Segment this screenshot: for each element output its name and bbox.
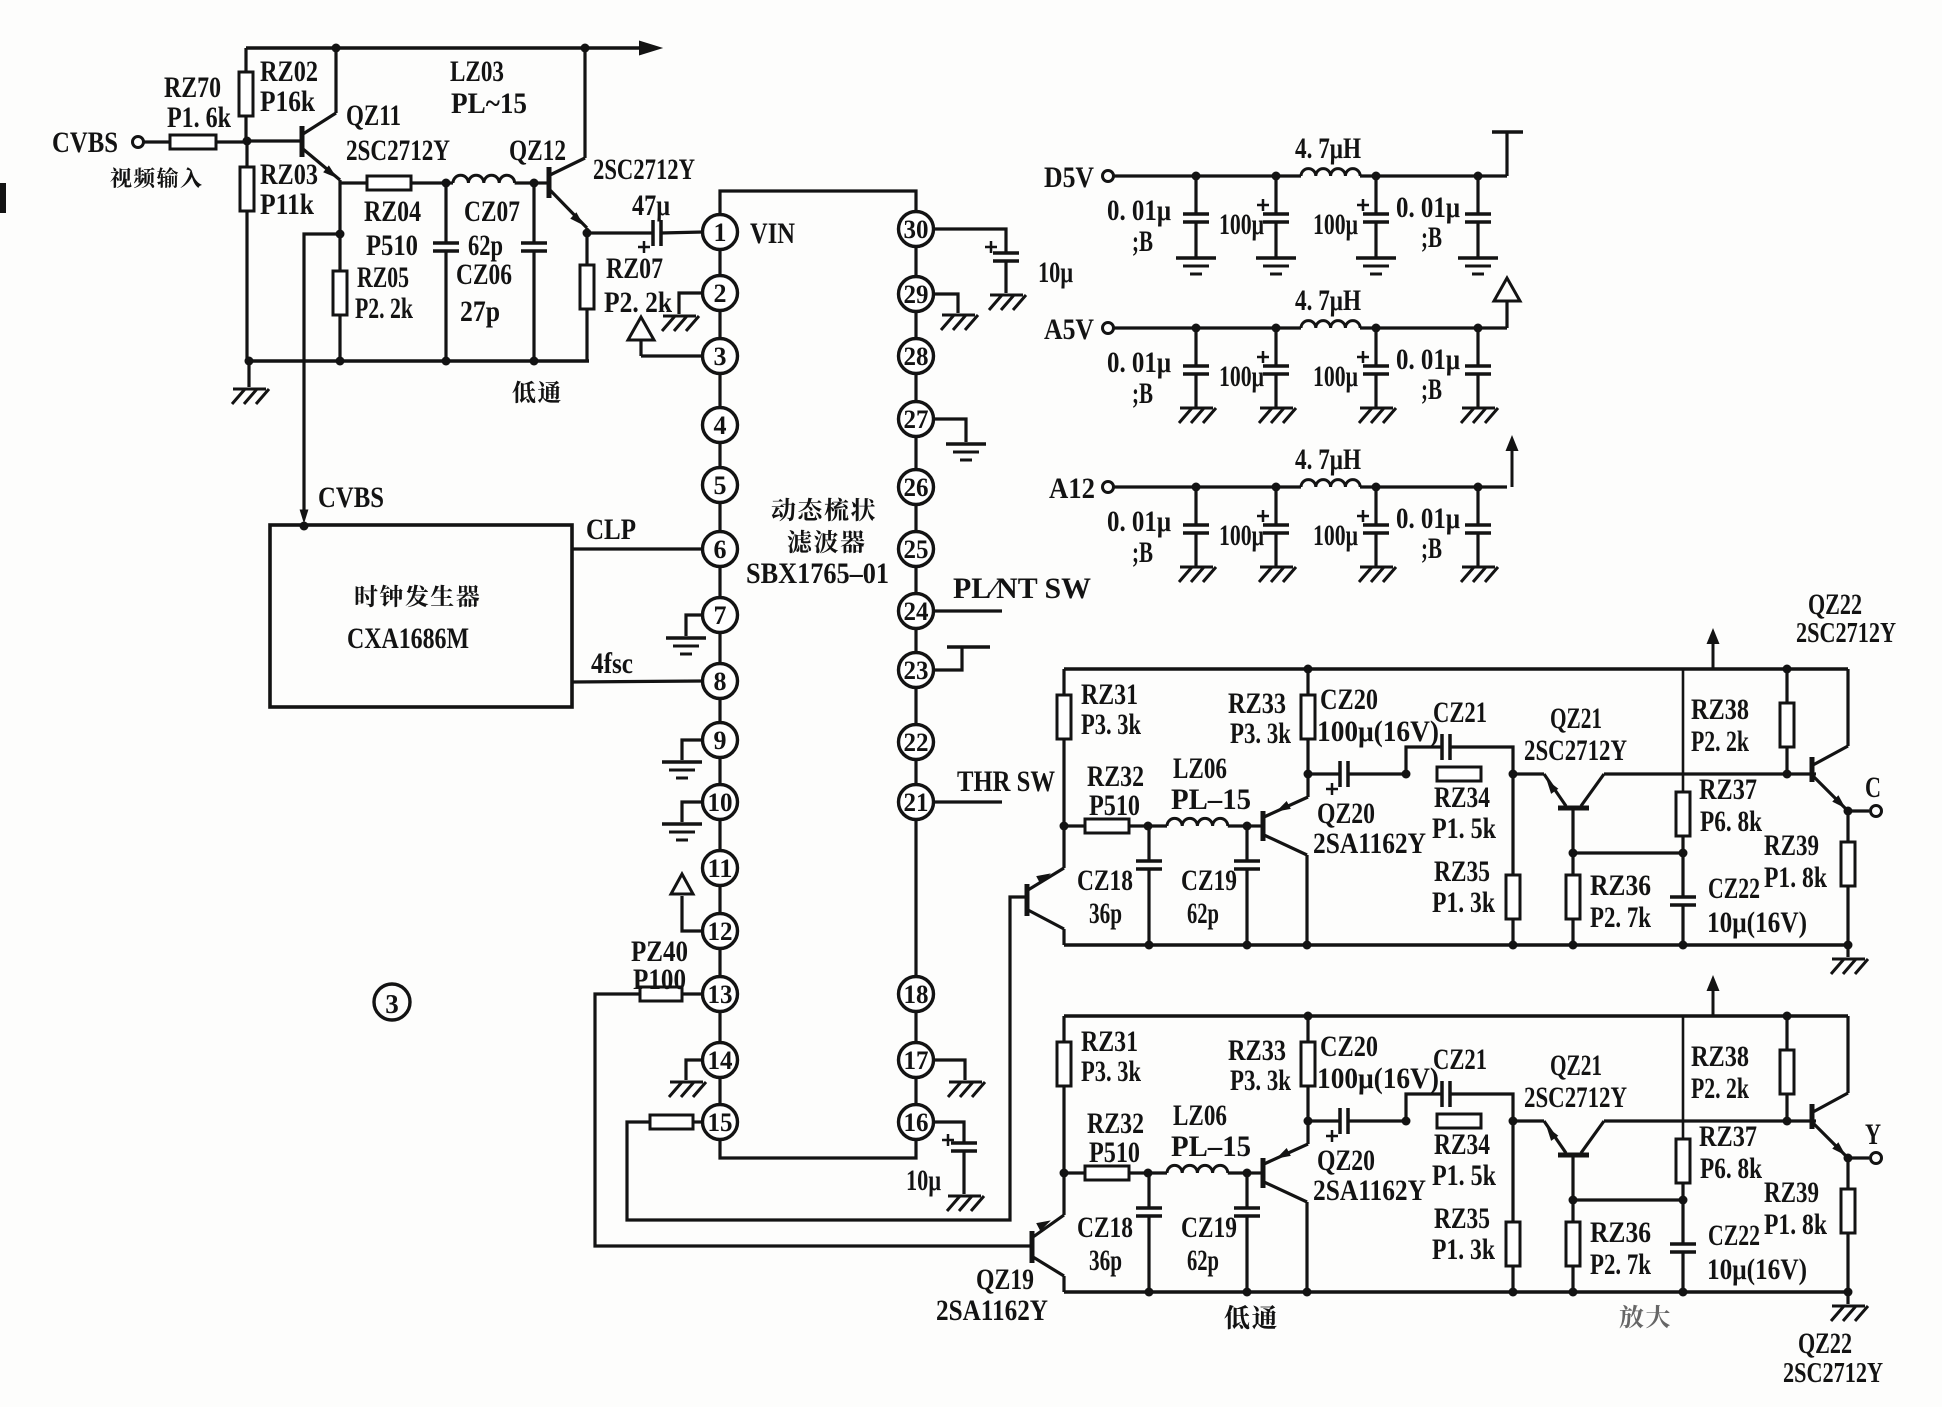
label 低通 low pass [512, 381, 560, 404]
svg-text:P1. 8k: P1. 8k [1764, 1208, 1827, 1241]
svg-text:P6. 8k: P6. 8k [1700, 805, 1762, 838]
resistor RZ31 Y [1062, 1016, 1065, 1042]
resistor RZ36 P2.7k C [1571, 853, 1574, 875]
pin 6 [703, 532, 738, 567]
svg-text:RZ70: RZ70 [164, 71, 221, 104]
svg-text:P100: P100 [633, 963, 686, 996]
ground at RZ39 Y [1846, 1292, 1849, 1304]
ground A12 row cap 1 [1180, 566, 1213, 569]
svg-text:5: 5 [714, 471, 727, 500]
resistor RZ39 P1.8k C [1846, 811, 1849, 842]
svg-text:0. 01μ: 0. 01μ [1396, 191, 1460, 224]
switch stub pin23 [933, 648, 962, 670]
wire QZ11 emitter down [338, 180, 341, 271]
capacitor CZ22 10u 16V C [1681, 853, 1684, 897]
svg-text:P2. 2k: P2. 2k [1691, 725, 1749, 758]
capacitor CZ21 Y [1406, 1094, 1442, 1121]
svg-text:10μ: 10μ [906, 1164, 941, 1197]
wire pin21 THR SW [933, 800, 1002, 803]
pin 8 [703, 664, 738, 699]
ground pin16 cap [948, 1195, 981, 1198]
ground D5V row cap 2 [1256, 256, 1296, 260]
capacitor 100u A5V row [1272, 324, 1281, 333]
wire top rail C block [1064, 667, 1848, 671]
transistor QZ12 2SC2712Y [534, 181, 549, 184]
ground pin7 [686, 615, 703, 636]
pin 13 [703, 977, 738, 1012]
svg-text:24: 24 [904, 597, 929, 626]
svg-text:RZ31: RZ31 [1081, 1025, 1138, 1058]
capacitor 47u coupling [587, 231, 653, 234]
svg-text:10μ(16V): 10μ(16V) [1707, 906, 1807, 939]
svg-text:QZ12: QZ12 [509, 134, 566, 167]
arrowhead on top rail [639, 41, 663, 56]
svg-text:A12: A12 [1049, 472, 1095, 505]
resistor RZ33 C [1304, 665, 1313, 674]
svg-text:CZ20: CZ20 [1320, 683, 1378, 716]
svg-text:4: 4 [714, 411, 727, 440]
node base of QZ11 [243, 137, 252, 146]
svg-text:2SA1162Y: 2SA1162Y [1313, 1174, 1426, 1207]
svg-text:RZ34: RZ34 [1434, 781, 1490, 814]
svg-text:;B: ;B [1421, 373, 1442, 406]
wire pin1 to pin30 top link [720, 191, 916, 214]
svg-text:13: 13 [708, 980, 733, 1009]
resistor RZ70 [144, 140, 170, 143]
svg-text:100μ(16V): 100μ(16V) [1317, 1062, 1439, 1095]
svg-text:2SC2712Y: 2SC2712Y [593, 153, 695, 186]
resistor RZ36 P2.7k Y [1571, 1200, 1574, 1222]
svg-text:A5V: A5V [1044, 313, 1094, 346]
svg-text:RZ35: RZ35 [1434, 1202, 1490, 1235]
pin 10 [703, 785, 738, 820]
svg-text:RZ05: RZ05 [357, 261, 409, 294]
svg-text:P1. 5k: P1. 5k [1432, 1159, 1496, 1192]
capacitor 0.01u D5V row [1474, 172, 1483, 181]
node RZ33 CZ20 QZ20 Y [1304, 1117, 1313, 1126]
wire right pin column [914, 246, 917, 277]
ground A5V row cap 3 [1360, 407, 1393, 410]
svg-text:29: 29 [904, 280, 929, 309]
capacitor CZ19 62p C [1245, 826, 1248, 861]
node RZ38 QZ22 base Y [1783, 1117, 1792, 1126]
resistor RZ38 P2.2k Y [1783, 1012, 1792, 1021]
ground A12 row cap 3 [1360, 566, 1393, 569]
svg-text:THR SW: THR SW [957, 765, 1055, 798]
svg-text:CXA1686M: CXA1686M [347, 622, 469, 655]
wire left pin column [718, 249, 721, 276]
svg-text:RZ34: RZ34 [1434, 1128, 1490, 1161]
capacitor CZ19 62p Y [1245, 1173, 1248, 1208]
power rail symbol arrow [1511, 443, 1514, 487]
svg-text:RZ07: RZ07 [606, 252, 663, 285]
svg-text:;B: ;B [1132, 536, 1153, 569]
svg-text:P2. 2k: P2. 2k [1691, 1072, 1749, 1105]
svg-text:22: 22 [904, 728, 929, 757]
svg-text:2: 2 [714, 279, 727, 308]
svg-text:RZ37: RZ37 [1699, 773, 1757, 806]
svg-text:11: 11 [708, 854, 733, 883]
wire bottom rail Y block [1064, 1290, 1848, 1294]
IC label 动态梳状滤波器 SBX1765-01 [772, 498, 875, 522]
svg-text:36p: 36p [1089, 897, 1122, 930]
ground D5V row cap 3 [1356, 256, 1396, 260]
pin 30 [899, 212, 934, 247]
svg-text:6: 6 [714, 535, 727, 564]
pin 22 [899, 725, 934, 760]
svg-text:30: 30 [904, 215, 929, 244]
inductor LZ03 PL~15 [446, 181, 453, 184]
wire QZ21 base down Y [1571, 1155, 1574, 1200]
svg-text:CZ06: CZ06 [456, 258, 512, 291]
svg-text:RZ38: RZ38 [1691, 1040, 1749, 1073]
svg-text:2SC2712Y: 2SC2712Y [1524, 1081, 1627, 1114]
svg-text:P1. 5k: P1. 5k [1432, 812, 1496, 845]
svg-text:QZ20: QZ20 [1317, 797, 1375, 830]
svg-text:4. 7μH: 4. 7μH [1295, 132, 1361, 165]
capacitor 0.01u D5V row [1192, 172, 1201, 181]
svg-text:100μ: 100μ [1219, 208, 1264, 241]
svg-text:2SC2712Y: 2SC2712Y [1524, 734, 1627, 767]
resistor RZ35 P1.3k C [1511, 774, 1514, 875]
svg-text:P2. 7k: P2. 7k [1590, 901, 1651, 934]
svg-text:QZ19: QZ19 [976, 1263, 1034, 1296]
ground pin27 [933, 419, 966, 442]
svg-text:D5V: D5V [1044, 161, 1094, 194]
power triangle at pin12 [682, 896, 703, 931]
svg-text:26: 26 [904, 473, 929, 502]
capacitor 10u at pin16 [951, 1141, 977, 1145]
label 放大 amplify [1620, 1305, 1670, 1329]
svg-text:QZ11: QZ11 [346, 99, 401, 132]
ground pin10 [682, 802, 703, 822]
capacitor 0.01u A12 row [1474, 483, 1483, 492]
node RZ32 CZ18 Y [1144, 1169, 1153, 1178]
node C output [1844, 807, 1853, 816]
node LZ03 CZ07 [530, 179, 539, 188]
ground at RZ39 C [1846, 945, 1849, 957]
svg-text:P510: P510 [1089, 1136, 1140, 1169]
ground pin30 cap [990, 294, 1023, 297]
capacitor 0.01u A5V row [1192, 324, 1201, 333]
svg-text:18: 18 [904, 980, 929, 1009]
svg-text:VIN: VIN [750, 217, 795, 250]
figure number 3 [374, 984, 410, 1020]
svg-text:10μ(16V): 10μ(16V) [1707, 1253, 1807, 1286]
pin 26 [899, 470, 934, 505]
svg-text:0. 01μ: 0. 01μ [1107, 194, 1171, 227]
ground A5V row cap 2 [1260, 407, 1293, 410]
capacitor CZ06 27p [444, 183, 447, 243]
transistor QZ21 2SC2712Y C [1513, 772, 1544, 775]
block clock generator CXA1686M [270, 525, 572, 707]
node RZ37 CZ22 Y [1679, 1196, 1688, 1205]
ground D5V row cap 1 [1176, 256, 1216, 260]
transistor QZ20 2SA1162Y Y [1247, 1171, 1263, 1174]
svg-text:P510: P510 [366, 229, 418, 262]
svg-text:P2. 2k: P2. 2k [604, 286, 672, 319]
svg-text:23: 23 [904, 656, 929, 685]
capacitor 100u D5V row [1372, 172, 1381, 181]
pin 1 [703, 215, 738, 250]
svg-text:27p: 27p [460, 295, 500, 328]
svg-text:10μ: 10μ [1038, 256, 1073, 289]
terminal Y output [1848, 1156, 1869, 1159]
svg-text:0. 01μ: 0. 01μ [1107, 346, 1171, 379]
resistor RZ07 [585, 233, 588, 265]
svg-text:CVBS: CVBS [52, 126, 118, 159]
svg-text:;B: ;B [1421, 532, 1442, 565]
node RZ38 QZ22 base C [1783, 770, 1792, 779]
svg-text:25: 25 [904, 535, 929, 564]
pin 24 [899, 594, 934, 629]
ground pin14 [686, 1060, 703, 1080]
ground pin17 [933, 1060, 965, 1080]
svg-text:P6. 8k: P6. 8k [1700, 1152, 1762, 1185]
wire pin13 via PZ40 to QZ19 base Y block [595, 994, 1030, 1246]
svg-text:RZ31: RZ31 [1081, 678, 1138, 711]
power triangle at pin3 [641, 354, 703, 357]
wire pin30 to 10u cap [933, 229, 1006, 253]
svg-text:100μ: 100μ [1313, 360, 1358, 393]
ground A5V row cap 1 [1180, 407, 1213, 410]
svg-text:;B: ;B [1132, 377, 1153, 410]
svg-text:PL⁄NT SW: PL⁄NT SW [953, 572, 1091, 605]
scan edge artifact [0, 183, 6, 213]
svg-text:100μ: 100μ [1219, 519, 1264, 552]
wire IC bottom link pin15-pin16 [720, 1139, 916, 1158]
transistor QZ20 2SA1162Y C [1247, 824, 1263, 827]
capacitor 100u A12 row [1372, 483, 1381, 492]
capacitor CZ20 100u 16V C [1308, 772, 1340, 775]
pin 16 [899, 1105, 934, 1140]
svg-text:CZ21: CZ21 [1433, 1043, 1487, 1076]
ground A5V row cap 4 [1462, 407, 1495, 410]
power input D5V [1103, 171, 1114, 182]
svg-text:100μ: 100μ [1313, 519, 1358, 552]
pin 17 [899, 1043, 934, 1078]
svg-text:8: 8 [714, 667, 727, 696]
svg-text:3: 3 [714, 342, 727, 371]
svg-text:17: 17 [904, 1046, 929, 1075]
resistor RZ32 P510 C [1064, 824, 1085, 827]
transistor QZ22 2SC2712Y Y [1810, 1104, 1815, 1129]
ground A12 row cap 4 [1462, 566, 1495, 569]
svg-text:CVBS: CVBS [318, 481, 384, 514]
transistor QZ19 2SA1162Y C [1025, 884, 1030, 916]
svg-text:SBX1765–01: SBX1765–01 [746, 557, 889, 590]
capacitor CZ21 C [1406, 747, 1442, 774]
svg-text:RZ04: RZ04 [364, 195, 421, 228]
svg-text:PL–15: PL–15 [1171, 783, 1251, 816]
svg-text:CZ18: CZ18 [1077, 864, 1133, 897]
capacitor 0.01u A12 row [1192, 483, 1201, 492]
pin 3 [703, 339, 738, 374]
resistor RZ39 P1.8k Y [1846, 1158, 1849, 1189]
pin 14 [703, 1043, 738, 1078]
resistor RZ34 P1.5k Y [1437, 1114, 1481, 1128]
label 低通 low pass Y block [1224, 1305, 1277, 1329]
svg-text:P1. 6k: P1. 6k [167, 101, 231, 134]
resistor RZ31 C [1062, 669, 1065, 695]
svg-text:28: 28 [904, 342, 929, 371]
capacitor 100u A12 row [1272, 483, 1281, 492]
svg-text:62p: 62p [468, 229, 503, 262]
svg-text:C: C [1865, 771, 1881, 804]
capacitor 0.01u A5V row [1474, 324, 1483, 333]
node RZ31 RZ32 Y [1060, 1169, 1069, 1178]
svg-text:P510: P510 [1089, 789, 1140, 822]
node CZ20 CZ21 RZ34 C [1402, 770, 1411, 779]
wire top rail [246, 46, 640, 50]
resistor PZ40 P100 [682, 992, 703, 995]
pin 15 [703, 1105, 738, 1140]
svg-text:RZ37: RZ37 [1699, 1120, 1757, 1153]
svg-text:QZ20: QZ20 [1317, 1144, 1375, 1177]
wire QZ21 base down C [1571, 808, 1574, 853]
svg-text:3: 3 [385, 989, 399, 1019]
wire pin15 to QZ19 base C block [627, 897, 1025, 1220]
pin 2 [703, 276, 738, 311]
svg-text:CZ22: CZ22 [1708, 1219, 1760, 1252]
svg-text:CZ22: CZ22 [1708, 872, 1760, 905]
svg-text:;B: ;B [1421, 221, 1442, 254]
terminal C output [1848, 809, 1869, 812]
pin 7 [703, 598, 738, 633]
svg-text:QZ21: QZ21 [1550, 702, 1602, 735]
svg-text:QZ22: QZ22 [1798, 1327, 1852, 1360]
pin 5 [703, 468, 738, 503]
node emitter RZ05 CVBS tap [336, 230, 345, 239]
svg-text:CZ19: CZ19 [1181, 864, 1237, 897]
svg-text:100μ: 100μ [1219, 360, 1264, 393]
resistor at pin15 [693, 1120, 703, 1123]
svg-text:2SC2712Y: 2SC2712Y [346, 134, 450, 167]
svg-text:CZ07: CZ07 [464, 195, 520, 228]
capacitor 10u at pin30 [993, 251, 1019, 255]
pin 4 [703, 408, 738, 443]
svg-text:2SA1162Y: 2SA1162Y [936, 1294, 1048, 1327]
svg-text:21: 21 [904, 788, 929, 817]
resistor RZ03 [245, 141, 248, 167]
pin 25 [899, 532, 934, 567]
pin 9 [703, 723, 738, 758]
node LZ06 CZ19 Y [1243, 1169, 1252, 1178]
transistor QZ19 2SA1162Y Y [1030, 1231, 1035, 1263]
ground of input stage [247, 361, 250, 387]
capacitor CZ07 62p [532, 183, 535, 243]
svg-text:QZ22: QZ22 [1808, 588, 1862, 621]
capacitor 100u D5V row [1272, 172, 1281, 181]
wire pin2 ground [679, 293, 703, 314]
svg-text:2SC2712Y: 2SC2712Y [1796, 618, 1896, 649]
svg-text:P3. 3k: P3. 3k [1230, 717, 1291, 750]
svg-text:9: 9 [714, 726, 727, 755]
capacitor CZ22 10u 16V Y [1681, 1200, 1684, 1244]
svg-text:CZ20: CZ20 [1320, 1030, 1378, 1063]
svg-text:RZ39: RZ39 [1764, 829, 1819, 862]
node RZ34 RZ35 QZ21 Y [1509, 1117, 1518, 1126]
node RZ04 CZ06 [442, 179, 451, 188]
transistor QZ21 2SC2712Y Y [1513, 1119, 1544, 1122]
pin 11 [703, 851, 738, 886]
svg-text:P3. 3k: P3. 3k [1081, 1055, 1141, 1088]
power arrow C block [1712, 636, 1715, 669]
wire low-pass bottom rail [249, 359, 589, 363]
svg-text:LZ03: LZ03 [450, 55, 504, 88]
resistor RZ35 P1.3k Y [1511, 1121, 1514, 1222]
capacitor 100u A5V row [1372, 324, 1381, 333]
svg-text:P2. 2k: P2. 2k [355, 292, 413, 325]
svg-text:PL–15: PL–15 [1171, 1130, 1251, 1163]
node CZ20 CZ21 RZ34 Y [1402, 1117, 1411, 1126]
resistor RZ34 P1.5k C [1437, 767, 1481, 781]
svg-text:P3. 3k: P3. 3k [1230, 1064, 1291, 1097]
svg-text:Y: Y [1865, 1118, 1881, 1151]
svg-text:14: 14 [708, 1046, 733, 1075]
node RZ31 RZ32 C [1060, 822, 1069, 831]
svg-text:RZ02: RZ02 [260, 55, 318, 88]
resistor RZ37 P6.8k C [1682, 669, 1685, 792]
ground pin9 [682, 740, 703, 760]
pin 27 [899, 402, 934, 437]
svg-text:RZ38: RZ38 [1691, 693, 1749, 726]
svg-text:4. 7μH: 4. 7μH [1295, 284, 1361, 317]
node RZ34 RZ35 QZ21 C [1509, 770, 1518, 779]
svg-text:2SC2712Y: 2SC2712Y [1783, 1358, 1883, 1389]
wire pin24 PL/NT SW [933, 609, 1002, 612]
inductor LZ06 PL-15 Y [1148, 1171, 1167, 1174]
svg-text:RZ33: RZ33 [1228, 1034, 1286, 1067]
wire bottom rail C block [1064, 943, 1848, 947]
svg-text:1: 1 [714, 218, 727, 247]
svg-text:100μ: 100μ [1313, 208, 1358, 241]
svg-text:RZ33: RZ33 [1228, 687, 1286, 720]
pin 21 [899, 785, 934, 820]
pin 12 [703, 914, 738, 949]
capacitor CZ18 36p Y [1147, 1173, 1150, 1208]
svg-text:15: 15 [708, 1108, 733, 1137]
resistor RZ04 [340, 181, 367, 184]
svg-text:16: 16 [904, 1108, 929, 1137]
svg-text:P1. 3k: P1. 3k [1432, 886, 1495, 919]
power input A5V [1103, 323, 1114, 334]
pin 18 [899, 977, 934, 1012]
resistor RZ37 P6.8k Y [1682, 1016, 1685, 1139]
svg-text:P1. 8k: P1. 8k [1764, 861, 1827, 894]
svg-text:12: 12 [708, 917, 733, 946]
svg-text:CZ21: CZ21 [1433, 696, 1487, 729]
pin 29 [899, 277, 934, 312]
resistor RZ32 P510 Y [1064, 1171, 1085, 1174]
pin 23 [899, 653, 934, 688]
node top rail QZ12 collector [581, 44, 590, 53]
svg-text:0. 01μ: 0. 01μ [1396, 502, 1460, 535]
node RZ37 CZ22 C [1679, 849, 1688, 858]
svg-text:P11k: P11k [260, 188, 314, 221]
wire pin6 CLP [572, 547, 703, 550]
svg-text:100μ(16V): 100μ(16V) [1317, 715, 1439, 748]
transistor QZ22 2SC2712Y C [1810, 757, 1815, 782]
wire pin16 to 10u cap [933, 1122, 964, 1143]
node RZ33 CZ20 QZ20 C [1304, 770, 1313, 779]
wire pin8 4fsc [572, 681, 703, 682]
svg-text:RZ03: RZ03 [260, 158, 318, 191]
svg-text:4. 7μH: 4. 7μH [1295, 443, 1361, 476]
svg-text:7: 7 [714, 601, 727, 630]
resistor RZ02 [244, 48, 247, 72]
svg-text:0. 01μ: 0. 01μ [1107, 505, 1171, 538]
